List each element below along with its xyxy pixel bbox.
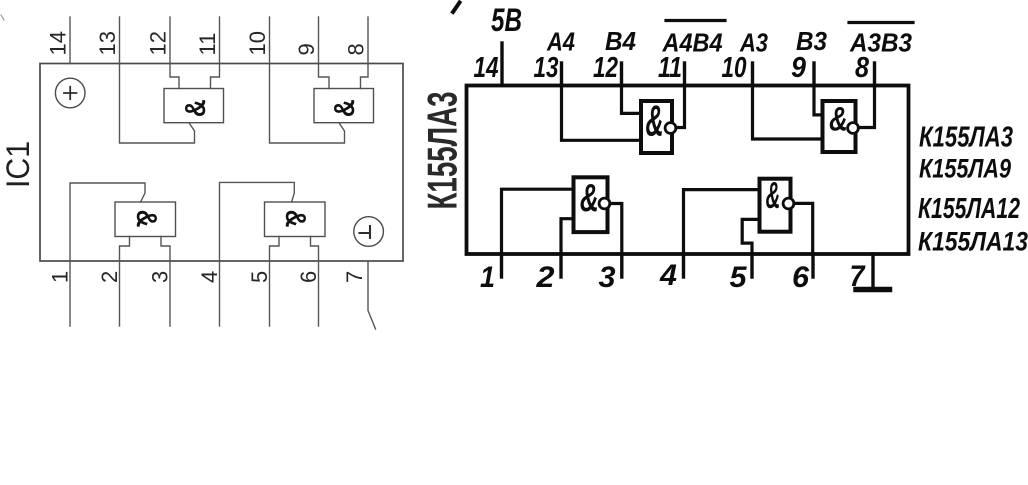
pin 8 stub bbox=[873, 63, 876, 85]
pin 4 lead bbox=[219, 261, 221, 326]
svg-text:6: 6 bbox=[296, 271, 321, 283]
NAND gate D1.3 body bbox=[574, 177, 608, 232]
svg-text:&: & bbox=[580, 177, 599, 220]
pin 4 stub bbox=[682, 254, 685, 277]
pin 7 lead (with bend) bbox=[368, 261, 376, 329]
svg-text:К155ЛА13: К155ЛА13 bbox=[918, 227, 1028, 257]
svg-text:9: 9 bbox=[791, 52, 806, 84]
IC1 package outline bbox=[40, 64, 403, 262]
svg-text:13: 13 bbox=[95, 31, 120, 55]
svg-text:К155ЛА12: К155ЛА12 bbox=[918, 193, 1020, 225]
wire D1.2 output to pin8 bbox=[859, 85, 875, 128]
svg-text:11: 11 bbox=[195, 33, 220, 56]
svg-text:5: 5 bbox=[730, 261, 748, 294]
svg-text:4: 4 bbox=[197, 271, 222, 283]
svg-text:&: & bbox=[829, 101, 848, 138]
svg-text:14: 14 bbox=[45, 31, 70, 55]
wire pin11 to IC1.1 input bbox=[211, 64, 220, 89]
svg-text:2: 2 bbox=[535, 261, 554, 294]
wire D1.3 output to pin3 bbox=[610, 204, 622, 255]
wire pin12 to IC1.1 input bbox=[170, 64, 179, 89]
svg-text:2: 2 bbox=[97, 271, 122, 283]
wire pin4 to D1.4 input bbox=[684, 190, 760, 254]
wire pin3 to IC1.3 input bbox=[161, 237, 170, 262]
NAND gate IC1.2 body bbox=[314, 89, 374, 123]
pin 6 lead bbox=[318, 261, 320, 326]
power symbol + (pin 14 supply) bbox=[55, 78, 85, 108]
wire pin2 to D1.3 input bbox=[561, 219, 574, 254]
pin 9 lead bbox=[318, 17, 320, 64]
svg-text:К155ЛА3: К155ЛА3 bbox=[419, 92, 466, 210]
svg-text:3: 3 bbox=[147, 271, 172, 283]
pin 8 lead bbox=[367, 17, 369, 64]
svg-text:4: 4 bbox=[659, 259, 677, 292]
svg-text:&: & bbox=[766, 176, 781, 217]
D1.4 output inversion bubble bbox=[783, 198, 794, 209]
svg-text:&: & bbox=[179, 99, 211, 117]
svg-text:8: 8 bbox=[855, 52, 870, 84]
ground symbol (pin 7 side) bbox=[354, 217, 384, 247]
pin 12 stub bbox=[620, 63, 623, 85]
svg-text:К155ЛА9: К155ЛА9 bbox=[919, 154, 1011, 184]
svg-text:1: 1 bbox=[47, 271, 72, 283]
pin 12 lead bbox=[169, 17, 171, 64]
svg-text:11: 11 bbox=[658, 52, 682, 84]
svg-text:&: & bbox=[279, 210, 311, 228]
pin 1 lead bbox=[69, 261, 71, 326]
wire D1.4 output to pin6 bbox=[794, 203, 813, 254]
pin 11 lead bbox=[219, 17, 221, 64]
NAND gate IC1.4 body bbox=[265, 202, 326, 237]
pin 1 stub bbox=[500, 254, 503, 277]
NAND gate IC1.1 body bbox=[164, 89, 224, 123]
wire pin1 to D1.3 input bbox=[502, 189, 574, 254]
NAND gate IC1.3 body bbox=[115, 202, 176, 237]
svg-text:8: 8 bbox=[344, 43, 369, 55]
svg-text:12: 12 bbox=[146, 31, 171, 55]
wire pin9 to D1.2 input bbox=[814, 85, 823, 115]
pin 5 lead bbox=[269, 261, 271, 326]
svg-text:10: 10 bbox=[245, 31, 270, 55]
pin 7 stub bbox=[871, 254, 874, 288]
svg-text:IC1: IC1 bbox=[0, 141, 36, 188]
wire pin5 to IC1.4 input bbox=[270, 237, 280, 262]
wire pin8 to IC1.2 input bbox=[361, 64, 369, 89]
ground bar at pin 7 bbox=[856, 287, 890, 293]
svg-text:&: & bbox=[645, 96, 663, 145]
stray apostrophe mark bbox=[453, 3, 460, 13]
stray scratch mark top-left bbox=[1, 15, 4, 20]
pin 9 stub bbox=[812, 63, 815, 85]
svg-text:1: 1 bbox=[480, 261, 495, 294]
wire pin10 to D1.2 input bbox=[753, 85, 823, 139]
svg-text:&: & bbox=[130, 210, 162, 228]
svg-text:К155ЛА3: К155ЛА3 bbox=[919, 122, 1013, 154]
pin 6 stub bbox=[811, 254, 814, 277]
NAND gate D1.2 body bbox=[823, 101, 856, 152]
wire pin6 to IC1.4 input bbox=[311, 237, 319, 262]
D1.2 output inversion bubble bbox=[848, 123, 859, 134]
pin 5 stub bbox=[750, 254, 753, 277]
pin 13 stub bbox=[560, 63, 563, 85]
pin 13 lead bbox=[119, 17, 121, 64]
svg-text:9: 9 bbox=[294, 43, 319, 55]
wire IC1.2 output to pin10 bbox=[270, 64, 345, 144]
svg-text:5В: 5В bbox=[491, 2, 522, 38]
pin 2 stub bbox=[559, 254, 562, 277]
svg-text:7: 7 bbox=[342, 271, 367, 283]
wire pin13 to D1.1 input bbox=[562, 85, 642, 140]
wire D1.1 output to pin11 bbox=[676, 85, 685, 128]
NAND gate D1.1 body bbox=[641, 101, 672, 153]
pin 14 stub bbox=[500, 43, 503, 85]
svg-text:12: 12 bbox=[593, 52, 618, 84]
pin 2 lead bbox=[119, 261, 121, 326]
svg-text:&: & bbox=[328, 99, 360, 117]
pin 10 lead bbox=[269, 17, 271, 64]
svg-text:5: 5 bbox=[247, 271, 272, 283]
NAND gate D1.4 body bbox=[760, 179, 791, 232]
wire pin2 to IC1.3 input bbox=[120, 237, 130, 262]
wire IC1.3 output to pin1 bbox=[70, 183, 145, 261]
svg-text:10: 10 bbox=[722, 52, 747, 84]
D1.3 output inversion bubble bbox=[599, 198, 610, 209]
pin 3 stub bbox=[620, 254, 623, 277]
pin 14 lead bbox=[69, 17, 71, 64]
pin 11 stub bbox=[683, 63, 686, 85]
svg-text:3: 3 bbox=[599, 261, 616, 294]
wire IC1.1 output to pin13 bbox=[120, 64, 195, 144]
D1 body outline K155LA3 bbox=[467, 86, 909, 255]
wire pin9 to IC1.2 input bbox=[319, 64, 330, 89]
D1.1 output inversion bubble bbox=[665, 123, 676, 134]
net A4B4 overline bbox=[666, 19, 725, 22]
svg-text:6: 6 bbox=[792, 261, 809, 294]
pin 3 lead bbox=[169, 261, 171, 326]
svg-text:13: 13 bbox=[534, 52, 559, 84]
wire pin5 to D1.4 input (jog) bbox=[742, 219, 759, 254]
net A3B3 overline bbox=[849, 21, 913, 24]
svg-text:14: 14 bbox=[474, 52, 499, 84]
wire IC1.4 output to pin4 bbox=[220, 182, 295, 261]
pin 10 stub bbox=[751, 63, 754, 85]
wire pin12 to D1.1 input bbox=[622, 85, 642, 113]
